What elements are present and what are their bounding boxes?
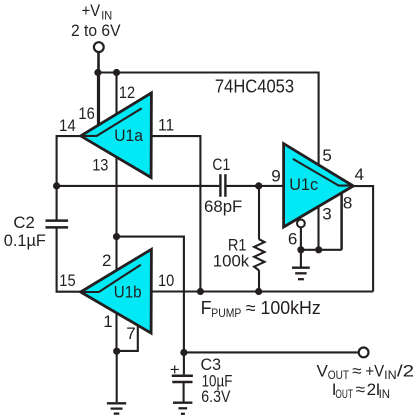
svg-text:10: 10 — [158, 271, 174, 290]
svg-text:6: 6 — [288, 230, 297, 249]
svg-text:+: + — [170, 360, 180, 379]
svg-text:14: 14 — [59, 116, 76, 135]
svg-text:9: 9 — [271, 167, 280, 186]
svg-text:6.3V: 6.3V — [201, 387, 231, 406]
svg-text:68pF: 68pF — [204, 197, 242, 216]
svg-text:C1: C1 — [212, 155, 230, 174]
svg-text:+V: +V — [82, 1, 101, 20]
svg-text:5: 5 — [322, 146, 331, 165]
svg-text:≈: ≈ — [356, 380, 365, 399]
svg-text:≈ 100kHz: ≈ 100kHz — [246, 298, 321, 318]
svg-text:PUMP: PUMP — [211, 306, 241, 320]
svg-text:U1c: U1c — [289, 175, 318, 194]
svg-text:16: 16 — [78, 104, 94, 123]
svg-text:2: 2 — [102, 251, 111, 270]
svg-text:7: 7 — [126, 324, 135, 343]
svg-text:OUT: OUT — [335, 387, 353, 401]
svg-text:12: 12 — [119, 83, 135, 102]
svg-text:2 to 6V: 2 to 6V — [71, 21, 121, 40]
svg-text:11: 11 — [158, 115, 174, 134]
svg-text:IN: IN — [384, 368, 397, 382]
svg-text:≈: ≈ — [352, 361, 361, 380]
svg-text:13: 13 — [92, 155, 108, 174]
svg-text:F: F — [201, 298, 212, 318]
svg-text:100k: 100k — [213, 251, 250, 270]
svg-text:V: V — [317, 361, 329, 380]
svg-text:U1a: U1a — [114, 126, 143, 145]
svg-text:0.1µF: 0.1µF — [4, 231, 46, 250]
svg-text:1: 1 — [103, 312, 112, 331]
svg-text:74HC4053: 74HC4053 — [215, 77, 294, 97]
svg-text:8: 8 — [343, 193, 352, 212]
svg-text:IN: IN — [379, 387, 390, 401]
svg-text:U1b: U1b — [114, 282, 142, 301]
svg-text:15: 15 — [59, 271, 75, 290]
svg-text:4: 4 — [355, 165, 364, 184]
svg-text:/2: /2 — [397, 361, 414, 380]
svg-text:3: 3 — [322, 205, 331, 224]
svg-text:C2: C2 — [13, 213, 34, 232]
svg-text:+V: +V — [365, 361, 384, 380]
